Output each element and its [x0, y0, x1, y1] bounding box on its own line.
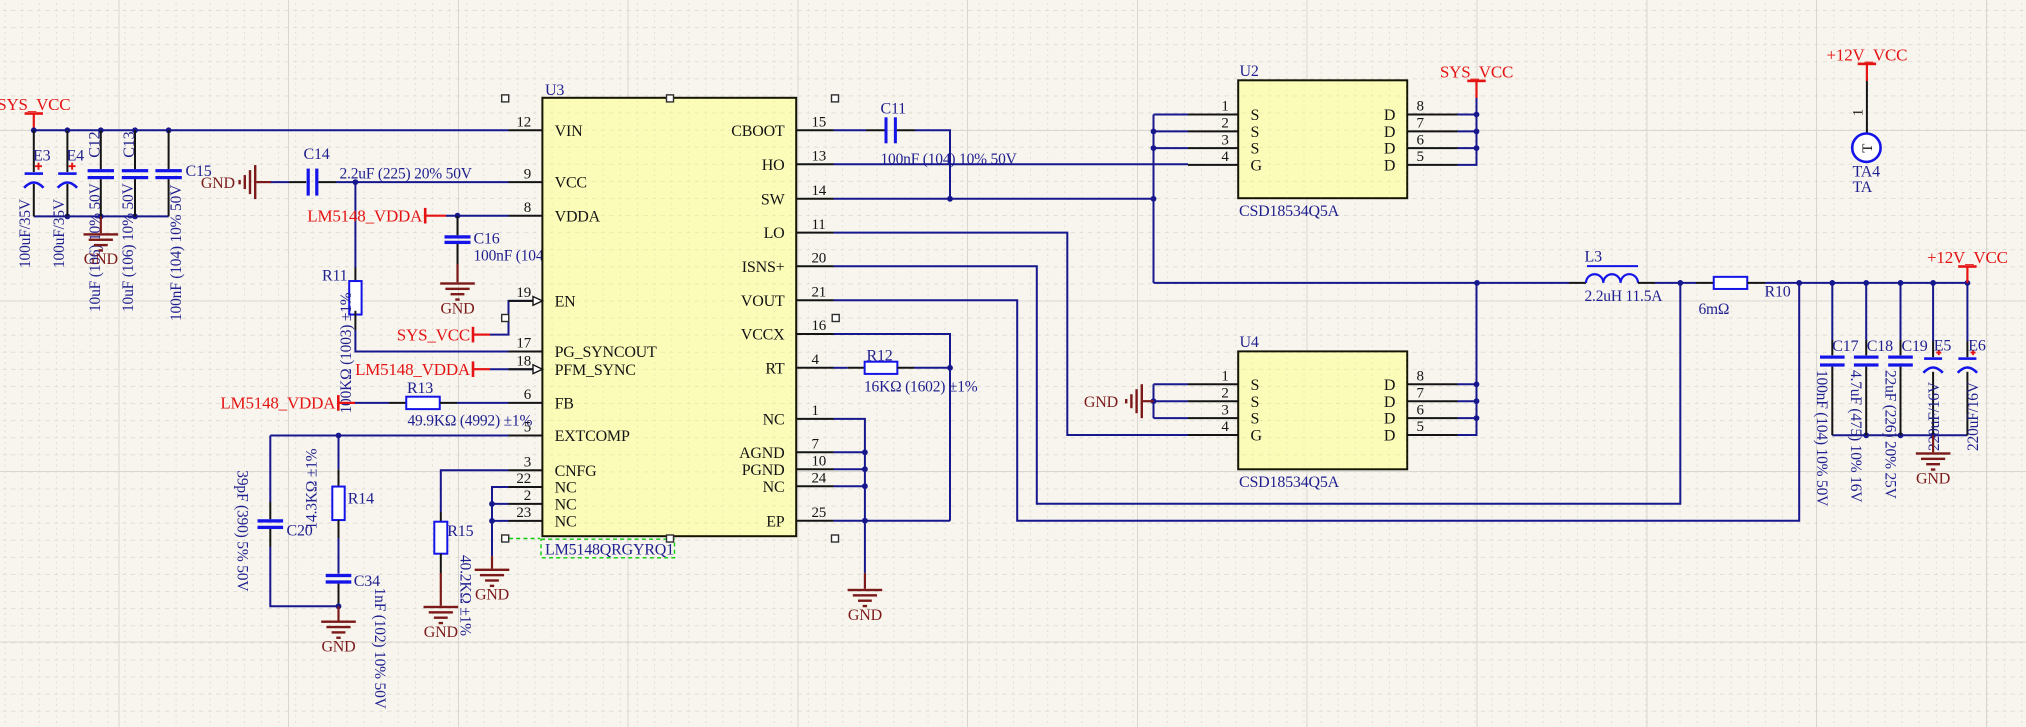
svg-text:39pF (390) 5% 50V: 39pF (390) 5% 50V	[233, 470, 250, 592]
svg-text:23: 23	[516, 505, 531, 521]
pin 13 HO (U3 right)	[762, 148, 834, 173]
value label R12	[864, 378, 978, 395]
transistor U2 CSD18534Q5A	[1188, 63, 1458, 220]
pin 9 VCC (U3 left)	[509, 166, 587, 191]
svg-text:VCC: VCC	[555, 175, 587, 192]
ground GND below NC pins	[475, 556, 510, 603]
capacitor E6	[1958, 283, 1986, 435]
svg-text:GND: GND	[424, 624, 458, 641]
capacitor C34	[326, 538, 380, 606]
junction rail at C12	[98, 127, 104, 133]
svg-text:HO: HO	[762, 157, 785, 174]
svg-text:D: D	[1384, 377, 1395, 394]
wire SYS_VCC to EN pin 19	[490, 301, 534, 335]
pin 17 PG_SYNCOUT (U3 left)	[509, 336, 658, 361]
pin 14 SW (U3 right)	[761, 183, 834, 208]
wire C14 to VCC pin 9	[318, 181, 508, 183]
wire L3 to R10	[1638, 282, 1714, 284]
junction PGND	[862, 466, 868, 472]
svg-text:1: 1	[812, 403, 819, 419]
svg-text:14: 14	[812, 183, 827, 199]
svg-text:CSD18534Q5A: CSD18534Q5A	[1239, 203, 1340, 220]
inductor L3	[1585, 249, 1639, 283]
pin 1 label TA4	[1850, 109, 1866, 116]
capacitor E3	[24, 130, 50, 216]
svg-text:R13: R13	[407, 380, 433, 397]
svg-text:100nF (104) 10% 50V: 100nF (104) 10% 50V	[1813, 370, 1830, 507]
svg-text:GND: GND	[1084, 394, 1118, 411]
svg-text:E6: E6	[1968, 337, 1986, 354]
svg-text:S: S	[1251, 107, 1260, 124]
wire LO to U4 gate	[834, 233, 1189, 435]
svg-text:CNFG: CNFG	[555, 463, 598, 480]
svg-text:11: 11	[812, 217, 826, 233]
capacitor C11	[881, 101, 907, 144]
wire NC pin 24	[834, 485, 865, 487]
svg-text:49.9KΩ (4992) ±1%: 49.9KΩ (4992) ±1%	[408, 412, 533, 429]
pin 23 NC (U3 left)	[509, 505, 577, 530]
capacitor C17	[1820, 283, 1859, 435]
svg-text:2: 2	[524, 488, 531, 504]
svg-text:2: 2	[1221, 385, 1228, 401]
svg-text:4: 4	[1221, 149, 1229, 165]
svg-text:100uF/35V: 100uF/35V	[17, 198, 34, 268]
wire VDDA port to R13	[355, 402, 406, 404]
svg-text:PG_SYNCOUT: PG_SYNCOUT	[555, 344, 657, 361]
svg-text:R12: R12	[867, 348, 893, 365]
svg-text:U3: U3	[545, 82, 564, 99]
svg-text:15: 15	[812, 115, 827, 131]
wire PGND pin 10	[834, 468, 865, 470]
svg-text:10: 10	[812, 453, 827, 469]
svg-text:6: 6	[1417, 402, 1425, 418]
svg-text:PFM_SYNC: PFM_SYNC	[555, 362, 636, 379]
svg-text:100nF (104) 10% 50V: 100nF (104) 10% 50V	[168, 184, 185, 321]
wire VDDA port to pin 18	[490, 368, 534, 370]
svg-text:4.7uF (475) 10% 16V: 4.7uF (475) 10% 16V	[1847, 370, 1864, 503]
svg-text:D: D	[1384, 141, 1395, 158]
capacitor C14	[304, 146, 330, 195]
junction SW at U2 source pin 2	[1151, 129, 1157, 135]
pin 18 PFM_SYNC (U3 left)	[509, 353, 636, 378]
designator label C13	[121, 131, 138, 157]
svg-text:2: 2	[1221, 116, 1228, 132]
power port +12V_VCC (output)	[1927, 248, 2008, 284]
ground GND at U4 sources (rotated)	[1084, 384, 1154, 418]
svg-text:E3: E3	[33, 147, 51, 164]
wire CBOOT to C11	[834, 129, 885, 131]
pin 20 ISNS+ (U3 right)	[742, 251, 834, 276]
svg-text:GND: GND	[321, 639, 355, 656]
svg-text:GND: GND	[201, 175, 235, 192]
svg-text:+12V_VCC: +12V_VCC	[1927, 248, 2008, 267]
power port LM5148_VDDA (PFM_SYNC pin 18)	[355, 360, 490, 379]
wire HO to U2 gate	[834, 163, 1189, 165]
value label C14	[340, 166, 473, 183]
svg-text:C11: C11	[881, 101, 907, 118]
pin 12 VIN (U3 left)	[509, 115, 584, 140]
power port SYS_VCC (top-left)	[0, 95, 70, 131]
junction bottom rail at C18	[1863, 432, 1869, 438]
value label R14	[303, 448, 320, 529]
svg-text:D: D	[1384, 394, 1395, 411]
ground GND below C34	[321, 606, 356, 655]
svg-text:VDDA: VDDA	[555, 208, 601, 225]
svg-text:G: G	[1251, 428, 1263, 445]
junction SW at U4 drain / L3	[1474, 280, 1480, 286]
svg-text:T: T	[1860, 144, 1876, 153]
svg-text:L3: L3	[1585, 249, 1603, 266]
svg-text:GND: GND	[1916, 470, 1950, 487]
wire EXTCOMP pin 5 net	[270, 435, 508, 437]
wire bottom rail of input capacitor bank	[34, 215, 169, 217]
svg-text:R15: R15	[447, 523, 473, 540]
junction U2 drain pin 6	[1474, 145, 1480, 151]
junction SW vertical at SW pin wire	[1151, 196, 1157, 202]
svg-text:40.2KΩ ±1%: 40.2KΩ ±1%	[457, 555, 474, 636]
wire SW net	[834, 115, 1478, 283]
power port SYS_VCC (EN)	[397, 325, 490, 344]
svg-text:GND: GND	[440, 300, 474, 317]
svg-text:C16: C16	[474, 231, 500, 248]
wire NC pin 1 down	[834, 419, 865, 521]
pin 19 EN (U3 left)	[509, 285, 577, 310]
svg-text:LM5148QRGYRQ1: LM5148QRGYRQ1	[545, 542, 674, 559]
pin 25 EP (U3 right)	[766, 505, 833, 530]
svg-text:10uF (106) 10% 50V: 10uF (106) 10% 50V	[87, 182, 104, 312]
junction U4 drain pin 8	[1474, 381, 1480, 387]
transistor U4 CSD18534Q5A	[1188, 334, 1458, 491]
svg-text:8: 8	[1417, 369, 1424, 385]
pin 21 VOUT (U3 right)	[741, 285, 834, 310]
svg-text:D: D	[1384, 124, 1395, 141]
svg-text:3: 3	[1221, 132, 1228, 148]
svg-text:4: 4	[1221, 419, 1229, 435]
svg-text:AGND: AGND	[739, 445, 784, 462]
svg-text:6mΩ: 6mΩ	[1699, 301, 1730, 318]
ground GND below R15	[424, 554, 459, 641]
junction bottom rail at E5 / GND	[1930, 432, 1936, 438]
ground GND output	[1916, 435, 1951, 487]
pin 1 NC (U3 right)	[763, 403, 834, 428]
wire EP pin 25	[834, 520, 951, 522]
svg-text:RT: RT	[765, 360, 785, 377]
svg-text:LO: LO	[764, 225, 785, 242]
wire AGND pin 7	[834, 451, 865, 453]
junction NC pin 2	[489, 501, 495, 507]
junction bottom rail at C12	[98, 214, 104, 220]
wire R11 to PG_SYNCOUT pin 17	[355, 330, 508, 352]
wire RT to R12	[834, 367, 865, 369]
junction VCC line at R11	[353, 179, 359, 185]
wire U4 sources to GND	[1154, 384, 1189, 418]
svg-text:D: D	[1384, 428, 1395, 445]
svg-text:S: S	[1251, 394, 1260, 411]
value label C20	[233, 470, 250, 592]
value label C13	[120, 182, 137, 312]
svg-text:ISNS+: ISNS+	[742, 259, 785, 276]
ground GND below C16	[440, 264, 475, 317]
wire C11 to SW node	[897, 130, 950, 199]
svg-text:9: 9	[524, 166, 531, 182]
svg-text:C13: C13	[121, 131, 138, 157]
pin 5 EXTCOMP (U3 left)	[509, 420, 630, 445]
resistor R14	[332, 436, 374, 539]
pin 3 CNFG (U3 left)	[509, 454, 598, 479]
value label C34	[371, 588, 388, 710]
svg-text:C14: C14	[304, 146, 330, 163]
wire R12 to VCCX vertical	[897, 367, 950, 369]
svg-text:220uF/16V: 220uF/16V	[1965, 381, 1982, 451]
svg-text:NC: NC	[763, 412, 785, 429]
pin 24 NC (U3 right)	[763, 470, 834, 495]
wire C20 bottom to GND junction	[270, 547, 338, 606]
capacitor C20	[258, 436, 313, 548]
value label R11	[338, 292, 355, 413]
junction AGND	[862, 449, 868, 455]
svg-text:U4: U4	[1240, 334, 1259, 351]
pin 15 CBOOT (U3 right)	[731, 115, 833, 140]
junction EXTCOMP at R14	[336, 433, 342, 439]
junction SYS_VCC rail at E3	[31, 127, 37, 133]
wire VOUT sense net	[834, 283, 1800, 521]
svg-text:R11: R11	[322, 267, 348, 284]
wire +12V_VCC to TA4	[1866, 81, 1868, 133]
svg-text:LM5148_VDDA: LM5148_VDDA	[355, 360, 471, 379]
junction NC pin 23	[489, 518, 495, 524]
capacitor E5	[1923, 283, 1951, 435]
value label E5	[1926, 381, 1943, 451]
value label C11	[881, 151, 1018, 168]
svg-text:TA: TA	[1853, 179, 1873, 196]
value label C16	[474, 247, 611, 264]
junction ISNS+ tap at L3 output	[1677, 280, 1683, 286]
svg-text:20: 20	[812, 251, 827, 267]
svg-text:17: 17	[516, 336, 531, 352]
svg-text:EN: EN	[555, 294, 577, 311]
svg-text:LM5148_VDDA: LM5148_VDDA	[220, 394, 336, 413]
junction bottom rail at C13	[132, 214, 138, 220]
svg-text:100uF/35V: 100uF/35V	[51, 198, 68, 268]
power port LM5148_VDDA (FB)	[220, 394, 355, 413]
svg-text:2.2uH 11.5A: 2.2uH 11.5A	[1585, 288, 1664, 305]
power port LM5148_VDDA (VDDA pin 8)	[307, 207, 446, 226]
svg-text:GND: GND	[848, 607, 882, 624]
svg-text:8: 8	[524, 200, 531, 216]
svg-text:2.2uF (225) 20% 50V: 2.2uF (225) 20% 50V	[340, 166, 473, 183]
value label C12	[87, 182, 104, 312]
pin 11 LO (U3 right)	[764, 217, 834, 242]
svg-text:E5: E5	[1934, 337, 1952, 354]
svg-text:5: 5	[1417, 419, 1424, 435]
svg-text:C12: C12	[87, 131, 104, 157]
svg-text:D: D	[1384, 107, 1395, 124]
capacitor E4	[58, 130, 84, 216]
svg-text:7: 7	[812, 437, 820, 453]
junction bottom rail at C19	[1898, 432, 1904, 438]
svg-text:NC: NC	[555, 480, 577, 497]
junction rail at C17	[1829, 280, 1835, 286]
svg-text:14.3KΩ ±1%: 14.3KΩ ±1%	[303, 448, 320, 529]
junction U2 drain pin 8	[1474, 112, 1480, 118]
junction VDDA at C16	[455, 213, 461, 219]
svg-text:SYS_VCC: SYS_VCC	[0, 95, 70, 114]
value label R10	[1699, 301, 1730, 318]
junction NC24	[862, 483, 868, 489]
svg-text:GND: GND	[475, 587, 509, 604]
selection handles of U3	[502, 95, 840, 542]
svg-text:6: 6	[524, 387, 532, 403]
wire GND to C14	[271, 181, 306, 183]
op-amp U3 body	[542, 82, 796, 536]
junction C20/C34 ground node	[336, 603, 342, 609]
capacitor C18	[1854, 283, 1893, 435]
svg-text:VIN: VIN	[555, 123, 583, 140]
svg-text:C18: C18	[1867, 338, 1893, 355]
pin 8 VDDA (U3 left)	[509, 200, 601, 225]
capacitor C12	[88, 130, 114, 216]
svg-text:GND: GND	[84, 251, 118, 268]
value label L3	[1585, 288, 1664, 305]
junction CBOOT cap at SW	[947, 196, 953, 202]
svg-text:SW: SW	[761, 191, 786, 208]
wire CNFG pin 3 to R15	[441, 470, 509, 522]
svg-text:G: G	[1251, 158, 1263, 175]
power port +12V_VCC (test point)	[1827, 45, 1908, 81]
svg-text:FB: FB	[555, 396, 574, 413]
junction RT at VCCX vertical	[947, 365, 953, 371]
svg-text:D: D	[1384, 411, 1395, 428]
svg-text:EXTCOMP: EXTCOMP	[555, 428, 630, 445]
svg-text:TA4: TA4	[1853, 163, 1881, 180]
svg-text:CSD18534Q5A: CSD18534Q5A	[1239, 474, 1340, 491]
pin 22 NC (U3 left)	[509, 471, 577, 496]
junction rail at C18	[1863, 280, 1869, 286]
junction U4 source pin 2	[1151, 398, 1157, 404]
junction rail at E6	[1965, 280, 1971, 286]
wire R10 to +12V output rail	[1747, 282, 1967, 284]
wire SW to L3	[1477, 282, 1586, 284]
svg-text:S: S	[1251, 377, 1260, 394]
value label E6	[1965, 381, 1982, 451]
wire output capacitor bottom rail	[1832, 434, 1967, 436]
junction rail at E4	[65, 127, 71, 133]
wire U4 drains to SW node	[1458, 283, 1477, 435]
ground GND at C14 (rotated)	[201, 165, 272, 199]
svg-text:25: 25	[812, 505, 827, 521]
svg-text:19: 19	[516, 285, 531, 301]
svg-text:NC: NC	[555, 497, 577, 514]
pin 16 VCCX (U3 right)	[741, 318, 834, 343]
capacitor C15	[155, 130, 211, 216]
svg-text:1: 1	[1850, 109, 1866, 116]
value label E4	[51, 198, 68, 268]
svg-text:+12V_VCC: +12V_VCC	[1827, 45, 1908, 64]
svg-text:100KΩ (1003) ±1%: 100KΩ (1003) ±1%	[338, 292, 355, 413]
svg-text:6: 6	[1417, 132, 1425, 148]
pin 4 RT (U3 right)	[765, 352, 833, 377]
junction EP ground node	[862, 518, 868, 524]
pin 6 FB (U3 left)	[509, 387, 574, 412]
ground GND below EP	[848, 521, 883, 624]
svg-text:PGND: PGND	[742, 462, 785, 479]
junction rail at C13	[132, 127, 138, 133]
junction U4 drain pin 6	[1474, 415, 1480, 421]
svg-text:7: 7	[1417, 116, 1425, 132]
designator label LM5148QRGYRQ1	[509, 539, 675, 559]
svg-text:1: 1	[1221, 369, 1228, 385]
resistor R15	[434, 522, 473, 554]
svg-text:SYS_VCC: SYS_VCC	[1440, 62, 1513, 81]
svg-text:4: 4	[812, 352, 820, 368]
svg-text:18: 18	[516, 353, 531, 369]
capacitor C16	[445, 216, 500, 264]
wire SYS_VCC input rail to VIN	[34, 129, 509, 131]
svg-text:U2: U2	[1240, 63, 1259, 80]
resistor R11	[322, 182, 362, 330]
junction VOUT sense tap	[1796, 280, 1802, 286]
value label R15	[457, 555, 474, 636]
wire VCCX down to EP line	[834, 334, 951, 521]
svg-text:22uF (226) 20% 25V: 22uF (226) 20% 25V	[1881, 370, 1898, 500]
junction rail at E5	[1930, 280, 1936, 286]
svg-text:24: 24	[812, 470, 827, 486]
svg-text:16KΩ (1602) ±1%: 16KΩ (1602) ±1%	[864, 378, 978, 395]
junction bottom rail at E4	[65, 214, 71, 220]
svg-text:1: 1	[1221, 99, 1228, 115]
svg-text:VOUT: VOUT	[741, 293, 785, 310]
svg-text:EP: EP	[766, 513, 785, 530]
capacitor C13	[122, 130, 148, 216]
svg-text:SYS_VCC: SYS_VCC	[397, 325, 470, 344]
junction U2 drain pin 7	[1474, 129, 1480, 135]
junction U4 drain pin 7	[1474, 398, 1480, 404]
svg-text:1nF (102) 10% 50V: 1nF (102) 10% 50V	[371, 588, 388, 710]
pin 7 AGND (U3 right)	[739, 437, 833, 462]
resistor R13	[406, 380, 440, 409]
svg-text:S: S	[1251, 124, 1260, 141]
svg-text:8: 8	[1417, 99, 1424, 115]
junction rail at C19	[1898, 280, 1904, 286]
value label C17	[1813, 370, 1830, 507]
comment label TA	[1853, 179, 1873, 196]
svg-text:D: D	[1384, 158, 1395, 175]
test point TA4	[1852, 134, 1880, 162]
svg-text:3: 3	[524, 454, 531, 470]
svg-text:22: 22	[516, 471, 531, 487]
power port SYS_VCC (U2 drain)	[1440, 62, 1513, 98]
svg-text:E4: E4	[67, 147, 85, 164]
value label E3	[17, 198, 34, 268]
svg-text:NC: NC	[555, 514, 577, 531]
resistor R10	[1714, 277, 1791, 301]
svg-text:C19: C19	[1902, 338, 1928, 355]
pin 2 NC (U3 left)	[509, 488, 577, 513]
svg-text:10uF (106) 10% 50V: 10uF (106) 10% 50V	[120, 182, 137, 312]
ground GND input bank	[84, 216, 119, 268]
svg-text:C17: C17	[1832, 338, 1858, 355]
svg-text:220uF/16V: 220uF/16V	[1926, 381, 1943, 451]
svg-text:5: 5	[524, 420, 531, 436]
svg-text:3: 3	[1221, 402, 1228, 418]
svg-text:21: 21	[812, 285, 827, 301]
resistor R12	[865, 348, 898, 374]
svg-text:LM5148_VDDA: LM5148_VDDA	[307, 207, 423, 226]
value label C15	[168, 184, 185, 321]
svg-text:7: 7	[1417, 385, 1425, 401]
capacitor C19	[1888, 283, 1928, 435]
junction SW at U2 source pin 3	[1151, 145, 1157, 151]
